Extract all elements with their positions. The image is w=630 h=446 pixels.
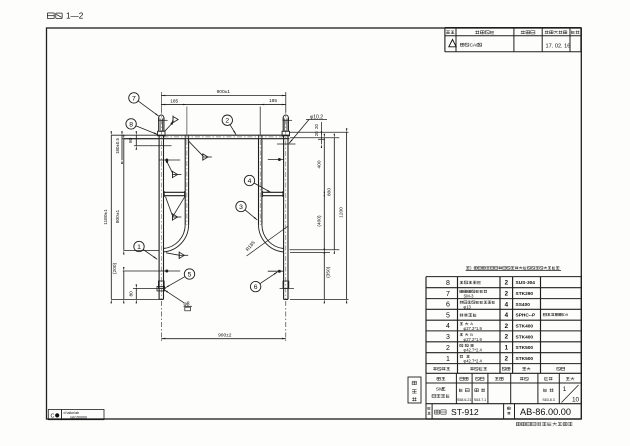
left rung (item 4 reinforcement) xyxy=(164,191,186,193)
svg-text:(200): (200) xyxy=(112,263,118,275)
left post bottom joint xyxy=(158,281,164,288)
weld symbol V at left rung xyxy=(166,197,173,215)
svg-text:1180±1: 1180±1 xyxy=(103,209,109,225)
dim 80 bottom left xyxy=(135,288,137,299)
svg-text:S63.7.1: S63.7.1 xyxy=(474,398,486,402)
svg-text:8: 8 xyxy=(446,280,450,287)
left extension lines xyxy=(122,138,158,140)
svg-text:4: 4 xyxy=(446,323,450,330)
svg-text:800: 800 xyxy=(326,188,332,196)
svg-text:2: 2 xyxy=(225,118,229,125)
bottom extension centerlines below posts xyxy=(160,301,162,341)
balloon 6 lower pin xyxy=(250,281,260,291)
left post lower pin xyxy=(123,270,180,272)
revision table grid xyxy=(444,28,446,52)
dim (200) left xyxy=(123,271,125,299)
balloon 7 top pin xyxy=(129,93,139,103)
dim 900+-2 bottom xyxy=(161,338,285,340)
svg-text:7: 7 xyxy=(132,95,136,102)
svg-text:3: 3 xyxy=(446,334,450,341)
weld symbol below left pin xyxy=(166,161,168,163)
svg-text:6: 6 xyxy=(446,302,450,309)
balloon 8 collar xyxy=(126,119,136,129)
left inner upright (item 3) xyxy=(184,139,186,225)
dim 400 right xyxy=(323,138,325,193)
svg-text:400: 400 xyxy=(316,160,322,168)
dim 1180+-1 left xyxy=(110,135,112,299)
svg-text:20: 20 xyxy=(314,131,319,136)
right R185 curve xyxy=(259,225,284,252)
svg-text:ST-912: ST-912 xyxy=(451,407,479,417)
svg-text:17. 02. 16: 17. 02. 16 xyxy=(546,44,571,50)
svg-text:4: 4 xyxy=(248,178,252,185)
top bar centerline xyxy=(164,136,284,138)
svg-text:STK290: STK290 xyxy=(516,291,534,297)
dim (400) right xyxy=(323,196,325,250)
svg-text:4: 4 xyxy=(505,301,509,308)
balloon 3 inner upright xyxy=(236,201,246,211)
svg-text:80: 80 xyxy=(128,291,134,297)
revision table headers xyxy=(446,30,450,32)
page label 1-2 xyxy=(47,12,54,14)
parts table header row xyxy=(433,367,435,370)
svg-text:2: 2 xyxy=(505,290,509,297)
title block grid xyxy=(426,382,581,384)
svg-text:5: 5 xyxy=(446,312,450,319)
dim 800+-1 left xyxy=(123,139,125,251)
svg-text:7: 7 xyxy=(446,291,450,298)
svg-text:2: 2 xyxy=(505,355,509,362)
svg-text:φ27.2*1.9: φ27.2*1.9 xyxy=(464,326,483,331)
svg-text:80: 80 xyxy=(128,137,134,143)
dim 900+-1 top xyxy=(161,95,285,97)
svg-text:10: 10 xyxy=(572,397,580,404)
svg-text:D9: D9 xyxy=(563,312,569,317)
weld symbol at bar-inner junction xyxy=(189,141,203,156)
svg-text:(350): (350) xyxy=(325,266,331,278)
svg-text:STK400: STK400 xyxy=(516,323,534,329)
dim 20 20 right top xyxy=(321,122,323,144)
post bottoms xyxy=(159,298,163,300)
svg-text:1: 1 xyxy=(563,386,567,393)
svg-text:S58.6.21: S58.6.21 xyxy=(457,398,471,402)
left post pin at 180 (item 5 debo pin) xyxy=(159,159,180,161)
left inner upright centerline xyxy=(186,140,188,225)
right post bottom joint xyxy=(283,281,289,288)
svg-text:SS400: SS400 xyxy=(516,302,531,308)
balloon 4 rung xyxy=(244,175,254,185)
svg-text:STK500: STK500 xyxy=(516,345,534,351)
right inner upright centerline xyxy=(259,140,261,225)
svg-text:AB-86.00.00: AB-86.00.00 xyxy=(520,407,571,417)
revision row: CAD note xyxy=(460,42,464,44)
svg-text:SUS-304: SUS-304 xyxy=(516,280,536,286)
svg-text:φ42.7*2.4: φ42.7*2.4 xyxy=(464,348,483,353)
svg-text:2: 2 xyxy=(505,334,509,341)
svg-text:4: 4 xyxy=(505,312,509,319)
svg-text:1: 1 xyxy=(446,356,450,363)
svg-text:5: 5 xyxy=(188,271,192,278)
dim 80 top left xyxy=(135,135,137,146)
right top pin (item 7/8 assembly) xyxy=(283,115,288,120)
right post tube (item 1) xyxy=(283,136,285,300)
svg-text:185: 185 xyxy=(170,99,178,105)
drawing border frame xyxy=(47,28,582,419)
right post lower pin xyxy=(268,270,284,272)
title header labels xyxy=(437,376,441,378)
svg-text:(400): (400) xyxy=(316,215,322,227)
svg-text:SM-3: SM-3 xyxy=(464,294,475,299)
top bar (item 2 horizontal member) xyxy=(158,134,290,136)
left post hole centerline xyxy=(152,145,172,147)
svg-text:2: 2 xyxy=(505,279,509,286)
balloon 1 leg tube xyxy=(134,241,144,251)
svg-text:1200: 1200 xyxy=(339,207,345,218)
svg-text:φ13: φ13 xyxy=(464,304,472,309)
file path box bottom left xyxy=(48,410,61,420)
svg-text:3: 3 xyxy=(239,204,243,211)
svg-text:S63.8.3: S63.8.3 xyxy=(542,398,554,402)
svg-text:2: 2 xyxy=(505,323,509,330)
balloon 5 lock pin xyxy=(184,269,194,279)
company name xyxy=(516,421,520,423)
left R185 curve xyxy=(164,225,189,252)
svg-text:185: 185 xyxy=(269,98,277,104)
third angle projection box xyxy=(408,377,421,403)
svg-text:φ42.7*2.4: φ42.7*2.4 xyxy=(464,359,483,364)
right post pin at 180 (item 5 debo pin) xyxy=(268,159,284,161)
right bottom tick xyxy=(280,287,294,289)
dim 180+-0.5 left xyxy=(121,135,123,160)
dim 800 right xyxy=(333,138,335,250)
svg-text:180±0.5: 180±0.5 xyxy=(115,138,120,154)
svg-text:1—2: 1—2 xyxy=(66,12,84,21)
dim 1200 right xyxy=(346,132,348,299)
right post centerline xyxy=(285,109,287,299)
svg-text:1: 1 xyxy=(505,345,509,352)
balloon 2 top bar xyxy=(222,115,232,125)
svg-text:2: 2 xyxy=(446,345,450,352)
right inner upright (item 3) xyxy=(258,139,260,225)
svg-text:STK400: STK400 xyxy=(516,334,534,340)
note line above parts table xyxy=(466,266,469,268)
weld symbol at left curve bottom xyxy=(166,253,179,255)
dim 185 left xyxy=(161,104,285,106)
right extension lines xyxy=(290,131,349,133)
left post centerline xyxy=(160,109,162,299)
weld symbol at left pin top xyxy=(165,124,172,132)
svg-text:C: C xyxy=(51,413,55,419)
svg-text:8: 8 xyxy=(129,121,133,128)
svg-text:SPHC--P: SPHC--P xyxy=(516,313,537,319)
svg-text:1: 1 xyxy=(137,244,141,251)
svg-text:\ab150000: \ab150000 xyxy=(70,415,87,419)
svg-text:φ27.2*1.9: φ27.2*1.9 xyxy=(464,337,483,342)
parts table grid xyxy=(426,276,581,278)
left top pin (item 7/8 assembly) xyxy=(159,115,164,120)
right post hole phi10.2 centerline xyxy=(277,143,296,145)
svg-text:900±1: 900±1 xyxy=(217,89,231,95)
right rung (item 4 reinforcement) xyxy=(262,191,284,193)
left post tube (item 1) xyxy=(158,136,160,300)
dim (350) right xyxy=(323,253,325,300)
svg-text:800±1: 800±1 xyxy=(115,210,121,224)
svg-text:20: 20 xyxy=(314,124,319,129)
name row xyxy=(431,404,433,419)
left bottom tick xyxy=(133,287,166,289)
svg-text:STK500: STK500 xyxy=(516,356,534,362)
revision row: triangle mark xyxy=(449,40,456,47)
left post lock tab (item 5 pointer target) xyxy=(157,286,165,291)
svg-text:900±2: 900±2 xyxy=(218,333,232,339)
svg-text:6: 6 xyxy=(254,284,258,291)
